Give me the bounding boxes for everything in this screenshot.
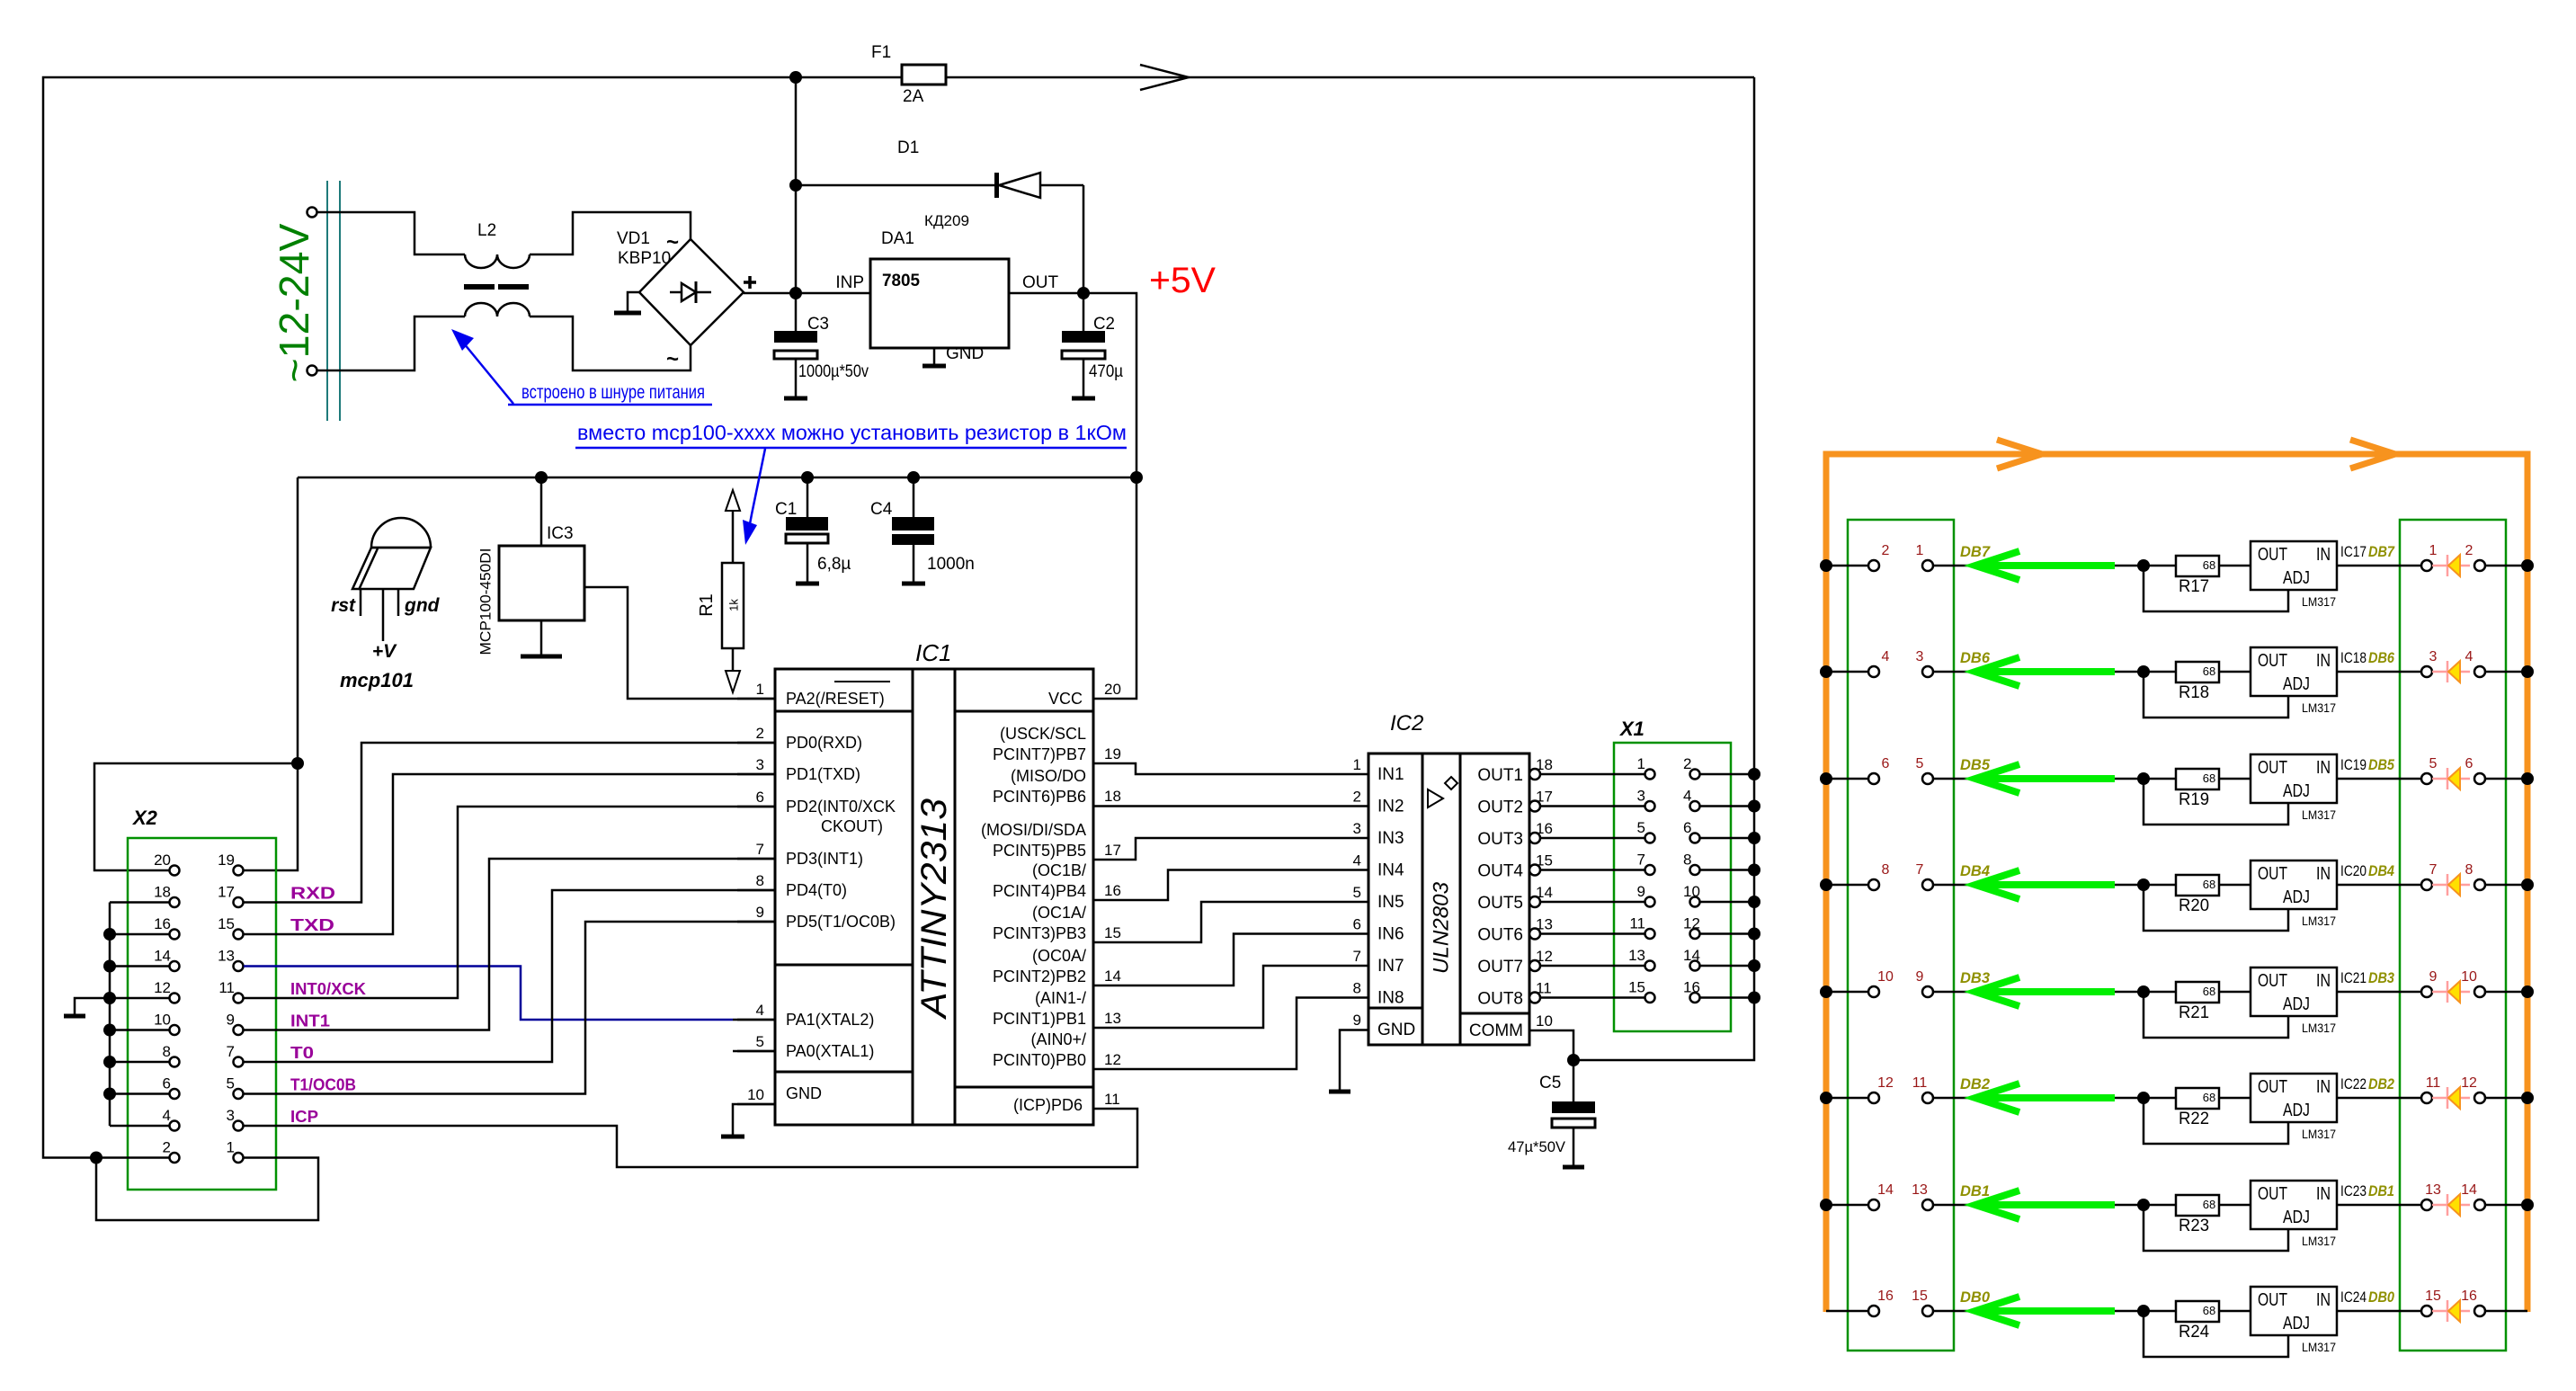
- svg-text:D1: D1: [897, 138, 919, 157]
- svg-text:LM317: LM317: [2302, 914, 2336, 928]
- ground: C3: [784, 397, 807, 401]
- label 68 R19: [2203, 771, 2215, 785]
- svg-text:12: 12: [1877, 1075, 1894, 1091]
- junction dot orange left row DB6: [1820, 665, 1832, 678]
- label DB4 left: [1960, 862, 1991, 879]
- driver IC2 ULN2803 body: [1368, 753, 1529, 1045]
- svg-text:5: 5: [1916, 756, 1924, 771]
- wire: R17 to IC17: [2219, 565, 2251, 567]
- label +V: [372, 641, 397, 662]
- label IC17: [2340, 543, 2367, 560]
- svg-text:10: 10: [747, 1086, 764, 1103]
- svg-text:DB6: DB6: [2368, 649, 2394, 666]
- svg-text:(MOSI/DI/SDA: (MOSI/DI/SDA: [981, 821, 1086, 839]
- svg-text:ADJ: ADJ: [2283, 568, 2310, 588]
- svg-text:~: ~: [666, 230, 679, 254]
- svg-text:DB5: DB5: [1960, 756, 1991, 773]
- wire: IC18 IN to LED: [2337, 671, 2421, 673]
- wire: IC1.13 to IC2.IN7: [1093, 966, 1368, 1028]
- svg-text:8: 8: [1882, 862, 1890, 878]
- label INP: [835, 273, 864, 292]
- ground: C4: [902, 582, 925, 586]
- svg-text:PCINT0)PB0: PCINT0)PB0: [993, 1051, 1086, 1069]
- svg-text:7: 7: [756, 841, 764, 858]
- wire: ADJ feedback IC17: [2144, 566, 2288, 611]
- label DB7 left: [1960, 543, 1991, 560]
- svg-text:18: 18: [154, 884, 171, 901]
- svg-text:6: 6: [1683, 819, 1691, 836]
- label ~ bottom: [666, 347, 679, 371]
- wire: IC3 reset out to IC1 pin1: [584, 587, 775, 699]
- label C5: [1539, 1074, 1561, 1092]
- svg-text:6: 6: [756, 789, 764, 806]
- svg-text:IC17: IC17: [2340, 543, 2367, 560]
- label DB6 right of IC18: [2368, 649, 2394, 666]
- junction dot R19: [2137, 772, 2150, 785]
- svg-text:5: 5: [2429, 756, 2438, 771]
- label R19: [2179, 790, 2209, 809]
- capacitor C3: [774, 293, 817, 398]
- svg-text:OUT3: OUT3: [1477, 830, 1523, 849]
- svg-text:6: 6: [2465, 756, 2473, 771]
- svg-text:68: 68: [2203, 664, 2215, 678]
- wire: D1 cathode to +5V node: [1083, 185, 1085, 293]
- terminal: AC input top: [308, 208, 317, 218]
- svg-text:PCINT1)PB1: PCINT1)PB1: [993, 1010, 1086, 1028]
- svg-text:IN5: IN5: [1377, 893, 1404, 912]
- svg-text:+5V: +5V: [1149, 261, 1216, 300]
- junction dot orange right row DB1: [2521, 1199, 2534, 1211]
- junction dot orange right row DB3: [2521, 985, 2534, 998]
- svg-text:ADJ: ADJ: [2283, 1101, 2310, 1120]
- connector pins row DB6 left: [1868, 666, 1933, 677]
- svg-text:20: 20: [1104, 681, 1121, 698]
- label ~ top: [666, 230, 679, 254]
- svg-text:2: 2: [2465, 543, 2473, 558]
- svg-text:7: 7: [1353, 948, 1361, 965]
- wire: IC22 IN to LED: [2337, 1097, 2421, 1100]
- svg-text:DB4: DB4: [2368, 862, 2394, 879]
- svg-text:3: 3: [1916, 649, 1924, 664]
- bridge rectifier VD1: [639, 239, 744, 345]
- svg-text:47µ*50V: 47µ*50V: [1508, 1138, 1566, 1155]
- svg-text:11: 11: [218, 979, 235, 996]
- wire: X2 pin19 to +5V: [244, 763, 298, 870]
- pin numbers row DB2 left: [1877, 1075, 1927, 1091]
- wire: R19 to IC19: [2219, 778, 2251, 780]
- svg-text:OUT: OUT: [2258, 758, 2287, 778]
- label 1k: [727, 599, 741, 611]
- wires: IC2 outputs to X1 and +5V rail: [1540, 774, 1754, 998]
- svg-text:IN: IN: [2316, 1077, 2331, 1097]
- svg-text:PA2(/RESET): PA2(/RESET): [786, 690, 885, 708]
- svg-text:13: 13: [1912, 1182, 1928, 1198]
- svg-text:2: 2: [1882, 543, 1890, 558]
- wire: IC1.18 to IC2.IN2: [1093, 805, 1368, 807]
- ground: IC3: [521, 620, 562, 656]
- svg-text:X1: X1: [1618, 718, 1645, 740]
- svg-text:68: 68: [2203, 878, 2215, 891]
- microcontroller IC1 ATTINY2313 body: [775, 669, 1093, 1125]
- junction dot orange left row DB3: [1820, 985, 1832, 998]
- svg-text:14: 14: [1877, 1182, 1894, 1198]
- label IC1: [915, 639, 951, 666]
- svg-text:68: 68: [2203, 1198, 2215, 1211]
- note: встроено в шнуре питания: [508, 382, 712, 405]
- label 1000n: [927, 555, 975, 574]
- svg-text:PCINT2)PB2: PCINT2)PB2: [993, 967, 1086, 985]
- capacitor C4: [892, 477, 934, 584]
- wire: +5V to X2 pin20: [94, 763, 298, 870]
- svg-text:5: 5: [1637, 819, 1645, 836]
- wire: +5V horizontal rail: [298, 477, 1136, 479]
- svg-text:OUT5: OUT5: [1477, 894, 1523, 913]
- svg-text:10: 10: [2461, 969, 2477, 985]
- junction dot C4: [907, 471, 920, 484]
- label D1: [897, 138, 919, 157]
- wire: arrow to resistor R17: [2115, 565, 2176, 567]
- label DB1 right of IC23: [2368, 1182, 2394, 1199]
- regulator IC21 LM317: [2251, 967, 2337, 1016]
- svg-text:DB3: DB3: [2368, 969, 2394, 986]
- pin numbers row DB5 right: [2429, 756, 2473, 771]
- svg-text:10: 10: [154, 1012, 171, 1029]
- svg-text:1000n: 1000n: [927, 555, 975, 574]
- label КД209: [924, 212, 969, 229]
- junction dot R18: [2137, 665, 2150, 678]
- svg-text:2: 2: [163, 1139, 171, 1156]
- resistor R18: [2176, 662, 2219, 682]
- svg-text:OUT: OUT: [2258, 651, 2287, 671]
- svg-text:3: 3: [1353, 820, 1361, 837]
- label R23: [2179, 1217, 2209, 1235]
- junction dot orange right row DB5: [2521, 772, 2534, 785]
- label DB2 left: [1960, 1075, 1991, 1092]
- svg-text:LM317: LM317: [2302, 1340, 2336, 1354]
- label C4: [870, 500, 893, 519]
- svg-text:ADJ: ADJ: [2283, 887, 2310, 907]
- svg-text:RXD: RXD: [290, 885, 335, 903]
- svg-text:DB7: DB7: [1960, 543, 1991, 560]
- svg-text:C1: C1: [775, 500, 797, 519]
- svg-text:1: 1: [227, 1139, 235, 1156]
- pin numbers row DB7 left: [1882, 543, 1924, 558]
- svg-text:встроено в шнуре питания: встроено в шнуре питания: [521, 382, 705, 403]
- svg-text:LM317: LM317: [2302, 1021, 2336, 1035]
- X2 pin numbers: [154, 852, 235, 1156]
- wire: +5V to VCC rail: [1083, 293, 1136, 699]
- ground: C5: [1563, 1165, 1584, 1170]
- svg-text:gnd: gnd: [404, 595, 441, 616]
- label L2: [477, 221, 496, 240]
- ground: DA1 GND pin: [923, 348, 946, 366]
- svg-text:13: 13: [2425, 1182, 2441, 1198]
- svg-text:IN: IN: [2316, 1290, 2331, 1310]
- LED row DB3: [2432, 981, 2470, 1003]
- svg-text:8: 8: [1353, 980, 1361, 997]
- diode D1: [796, 173, 1083, 198]
- wire: VIN vertical (top rail to bridge+): [795, 77, 798, 293]
- svg-text:TXD: TXD: [290, 916, 334, 934]
- capacitor C2: [1062, 293, 1105, 398]
- svg-text:14: 14: [1683, 947, 1700, 964]
- svg-text:20: 20: [154, 852, 171, 869]
- ground: bridge negative: [614, 292, 641, 313]
- svg-text:68: 68: [2203, 985, 2215, 998]
- IC1 right pin labels: [981, 690, 1086, 1114]
- svg-text:(AIN1-/: (AIN1-/: [1035, 989, 1086, 1007]
- svg-text:1: 1: [1353, 756, 1361, 773]
- fuse F1: [902, 65, 1754, 85]
- svg-text:16: 16: [1104, 882, 1121, 899]
- svg-text:ADJ: ADJ: [2283, 674, 2310, 694]
- label 68 R18: [2203, 664, 2215, 678]
- svg-text:DB5: DB5: [2368, 756, 2394, 773]
- svg-text:OUT: OUT: [2258, 1290, 2287, 1310]
- regulator IC24 LM317: [2251, 1287, 2337, 1335]
- svg-text:F1: F1: [871, 43, 891, 62]
- label rst: [331, 595, 356, 616]
- label 68 R17: [2203, 558, 2215, 572]
- svg-text:R19: R19: [2179, 790, 2209, 809]
- svg-text:OUT: OUT: [2258, 1077, 2287, 1097]
- svg-text:R20: R20: [2179, 896, 2209, 915]
- wire: LED to orange right row DB0: [2485, 1310, 2527, 1313]
- label DB4 right of IC20: [2368, 862, 2394, 879]
- svg-text:9: 9: [1637, 883, 1645, 900]
- svg-text:5: 5: [1353, 884, 1361, 901]
- svg-text:13: 13: [218, 948, 235, 965]
- green data arrow row DB5: [1975, 764, 2115, 793]
- label gnd: [404, 595, 441, 616]
- svg-text:IC24: IC24: [2340, 1288, 2367, 1306]
- svg-text:DB7: DB7: [2368, 543, 2395, 560]
- svg-text:OUT1: OUT1: [1477, 766, 1523, 785]
- wire: arrow to resistor R18: [2115, 671, 2176, 673]
- label F1: [871, 43, 891, 62]
- wire: +5V to IC3: [540, 477, 543, 546]
- svg-text:16: 16: [1683, 979, 1700, 996]
- svg-text:8: 8: [756, 872, 764, 889]
- current direction arrow on top rail: [1140, 65, 1189, 90]
- connector pins row DB2 right: [2421, 1092, 2485, 1103]
- label +5V: [1149, 261, 1216, 300]
- svg-text:L2: L2: [477, 221, 496, 240]
- svg-text:8: 8: [1683, 852, 1691, 869]
- pin numbers row DB0 right: [2425, 1288, 2477, 1304]
- svg-text:OUT: OUT: [2258, 1184, 2287, 1204]
- wire: arrow to resistor R19: [2115, 778, 2176, 780]
- label VD1: [617, 229, 650, 248]
- svg-text:~: ~: [666, 347, 679, 371]
- junction dot D1 anode: [789, 179, 802, 192]
- wire: R22 to IC22: [2219, 1097, 2251, 1100]
- resistor R17: [2176, 556, 2219, 576]
- junction dot R17: [2137, 559, 2150, 572]
- wire: INT0/XCK X2.11 to IC1.6: [244, 807, 775, 998]
- connector pins row DB1 left: [1868, 1199, 1933, 1210]
- junction dot orange right row DB6: [2521, 665, 2534, 678]
- svg-text:6: 6: [1882, 756, 1890, 771]
- svg-text:12: 12: [2461, 1075, 2477, 1091]
- label 47µ*50V: [1508, 1138, 1566, 1155]
- IC2 symbol marks: [1428, 777, 1457, 807]
- svg-text:ADJ: ADJ: [2283, 1314, 2310, 1333]
- labels OUT IN ADJ IC19: [2258, 758, 2331, 801]
- label C2: [1093, 315, 1115, 334]
- svg-text:16: 16: [1877, 1288, 1894, 1304]
- resistor R19: [2176, 769, 2219, 789]
- wire: IC1.15 to IC2.IN5: [1093, 902, 1368, 942]
- junction dot orange right row DB4: [2521, 878, 2534, 891]
- labels OUT IN ADJ IC24: [2258, 1290, 2331, 1333]
- svg-text:R1: R1: [697, 593, 717, 617]
- svg-text:13: 13: [1628, 947, 1645, 964]
- wire: ADJ feedback IC20: [2144, 885, 2288, 931]
- svg-text:T0: T0: [290, 1044, 314, 1062]
- ground: C1: [796, 582, 819, 586]
- label IC19: [2340, 756, 2367, 773]
- svg-text:IN6: IN6: [1377, 925, 1404, 944]
- junction dots X2 bus: [103, 928, 116, 1101]
- wire: INT1 X2.9 to IC1.7: [244, 859, 775, 1030]
- svg-text:IN: IN: [2316, 545, 2331, 565]
- connector pins row DB6 right: [2421, 666, 2485, 677]
- svg-text:MCP100-450DI: MCP100-450DI: [477, 548, 495, 655]
- svg-text:PA0(XTAL1): PA0(XTAL1): [786, 1042, 874, 1060]
- svg-text:+V: +V: [372, 641, 397, 662]
- svg-text:IN: IN: [2316, 971, 2331, 991]
- wire: LED to orange right row DB5: [2485, 778, 2527, 780]
- svg-text:DB2: DB2: [1960, 1075, 1991, 1092]
- X2 pin circles: [170, 866, 244, 1164]
- wire: row DB4 left: [1826, 884, 1974, 887]
- pin numbers row DB1 left: [1877, 1182, 1928, 1198]
- wire: arrow to resistor R22: [2115, 1097, 2176, 1100]
- orange arrow 2: [2350, 440, 2395, 468]
- pin numbers row DB1 right: [2425, 1182, 2477, 1198]
- label IC18: [2340, 649, 2367, 666]
- svg-text:4: 4: [163, 1107, 171, 1124]
- label mcp101: [340, 669, 414, 691]
- wire: IC17 IN to LED: [2337, 565, 2421, 567]
- label DB1 left: [1960, 1182, 1990, 1199]
- label 2A: [903, 87, 924, 106]
- svg-text:10: 10: [1536, 1012, 1553, 1030]
- svg-text:14: 14: [2461, 1182, 2477, 1198]
- svg-text:ADJ: ADJ: [2283, 1208, 2310, 1227]
- label IC24: [2340, 1288, 2367, 1306]
- svg-text:IC18: IC18: [2340, 649, 2367, 666]
- svg-text:IN: IN: [2316, 864, 2331, 884]
- svg-text:PA1(XTAL2): PA1(XTAL2): [786, 1011, 874, 1029]
- wire: X2.13 to IC1.4 (blue): [244, 967, 775, 1021]
- svg-text:(AIN0+/: (AIN0+/: [1030, 1030, 1086, 1048]
- green data arrow row DB2: [1975, 1083, 2115, 1112]
- labels OUT IN ADJ IC17: [2258, 545, 2331, 588]
- svg-text:DA1: DA1: [881, 229, 914, 248]
- svg-text:PCINT4)PB4: PCINT4)PB4: [993, 882, 1086, 900]
- label LM317 IC24: [2302, 1340, 2336, 1354]
- wire: R23 to IC23: [2219, 1204, 2251, 1207]
- svg-text:ADJ: ADJ: [2283, 994, 2310, 1014]
- svg-text:11: 11: [1104, 1091, 1120, 1108]
- svg-text:DB2: DB2: [2368, 1075, 2394, 1092]
- note: вместо mcp100-xxxx можно установить резистор в 1кОм: [575, 421, 1127, 448]
- connector box left (lamp matrix): [1848, 520, 1954, 1351]
- svg-text:(OC1B/: (OC1B/: [1032, 861, 1086, 879]
- svg-text:1000µ*50v: 1000µ*50v: [798, 362, 869, 381]
- resistor R1 (optional 1k): [722, 490, 744, 692]
- label DA1: [881, 229, 914, 248]
- svg-text:1: 1: [1637, 755, 1645, 772]
- label DB7 right of IC17: [2368, 543, 2395, 560]
- label DB3 right of IC21: [2368, 969, 2394, 986]
- svg-text:rst: rst: [331, 595, 356, 616]
- regulator IC18 LM317: [2251, 647, 2337, 696]
- svg-text:4: 4: [1353, 852, 1361, 869]
- connector pins row DB7 right: [2421, 560, 2485, 571]
- svg-text:CKOUT): CKOUT): [821, 817, 883, 835]
- label LM317 IC22: [2302, 1127, 2336, 1141]
- svg-text:OUT6: OUT6: [1477, 926, 1523, 945]
- svg-text:вместо mcp100-xxxx можно устан: вместо mcp100-xxxx можно установить рези…: [577, 421, 1127, 444]
- label ~12-24V: [271, 223, 317, 382]
- junction dot X2 pin2: [90, 1152, 103, 1164]
- green data arrow row DB6: [1975, 657, 2115, 686]
- label R18: [2179, 683, 2209, 702]
- wire: row DB6 left: [1826, 671, 1974, 673]
- wire: ADJ feedback IC23: [2144, 1205, 2288, 1251]
- label DB0 right of IC24: [2368, 1288, 2394, 1306]
- junction dot orange left row DB7: [1820, 559, 1832, 572]
- capacitor C5: [1552, 1060, 1595, 1167]
- labels OUT IN ADJ IC20: [2258, 864, 2331, 907]
- svg-text:IN3: IN3: [1377, 829, 1404, 848]
- label 470µ: [1089, 362, 1123, 381]
- svg-text:C2: C2: [1093, 315, 1115, 334]
- wire: LED to orange right row DB4: [2485, 884, 2527, 887]
- label IC3: [547, 524, 574, 543]
- orange arrow 1: [1997, 440, 2042, 468]
- label DB5 left: [1960, 756, 1991, 773]
- svg-text:7805: 7805: [882, 272, 920, 290]
- green data arrow row DB0: [1975, 1297, 2115, 1325]
- svg-text:OUT: OUT: [1022, 273, 1059, 292]
- label 68 R24: [2203, 1304, 2215, 1317]
- IC1 pin numbers: [747, 681, 1121, 1108]
- svg-text:DB0: DB0: [2368, 1288, 2394, 1306]
- svg-text:PCINT5)PB5: PCINT5)PB5: [993, 842, 1086, 860]
- wire: LED to orange right row DB7: [2485, 565, 2527, 567]
- wire: L2 secondary bottom to bridge: [530, 317, 691, 370]
- junction dots +5V rail at X1: [1748, 768, 1760, 1004]
- label 68 R20: [2203, 878, 2215, 891]
- voltage regulator DA1 7805: [870, 259, 1009, 348]
- label X2: [131, 807, 158, 829]
- svg-text:PD0(RXD): PD0(RXD): [786, 734, 862, 752]
- svg-text:5: 5: [756, 1033, 764, 1050]
- connector pins row DB3 right: [2421, 986, 2485, 997]
- label DB5 right of IC19: [2368, 756, 2394, 773]
- svg-text:12: 12: [1683, 915, 1700, 932]
- wire: ADJ feedback IC21: [2144, 992, 2288, 1038]
- svg-text:8: 8: [163, 1043, 171, 1060]
- svg-text:15: 15: [2425, 1288, 2441, 1304]
- label ULN2803: [1430, 881, 1454, 974]
- X1 pin numbers: [1628, 755, 1700, 996]
- wire: row DB7 left: [1826, 565, 1974, 567]
